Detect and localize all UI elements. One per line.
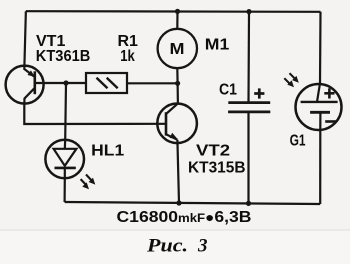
HL1 emission arrows [81,175,96,190]
wire HL1 anode branch [64,83,67,140]
node top rail / M1 [175,9,180,14]
wire top rail [26,10,321,13]
wire G1 bottom lead [319,130,321,204]
wire M1 top lead [176,11,178,29]
svg-text:G1: G1 [290,133,306,150]
svg-text:HL1: HL1 [91,143,124,160]
wire C1 top lead [247,12,250,103]
node R1 / M1 / VT2 collector [175,81,180,86]
wire M1 bottom lead [176,68,179,83]
LED HL1 [45,140,84,179]
wire VT2 collector lead [177,83,179,103]
svg-text:1k: 1k [120,48,135,65]
wire VT1 emitter lead [24,11,25,66]
svg-text:C1: C1 [219,82,237,99]
transistor VT2 [157,103,197,143]
C1 plus sign [254,88,264,98]
node bottom rail / VT2 emitter [176,200,181,205]
svg-text:KT361B: KT361B [36,48,91,65]
wire R1 to junction [127,82,178,84]
faint figure bottom edge [0,229,350,231]
G1 light arrows [284,73,299,87]
motor M1 [158,29,197,68]
wire VT1 collector to VT2 base [24,104,166,125]
wire G1 top lead [319,12,322,85]
transistor VT1 [6,66,44,104]
svg-text:C16800mkF●6,3B: C16800mkF●6,3B [117,209,252,226]
wire VT2 emitter lead [177,140,179,203]
resistor R1 [86,73,127,93]
wire HL1 cathode to bottom rail [63,178,65,202]
G1 minus sign [325,120,336,123]
wire VT1 base to R1 [35,82,86,84]
VT2 emitter arrow (NPN) [170,133,177,139]
node top rail / C1 [246,9,251,14]
capacitor C1 [228,103,270,112]
battery G1 [296,84,342,130]
node bottom rail / C1 [246,201,251,206]
svg-text:3: 3 [197,236,208,257]
G1 plus sign [324,88,334,98]
node VT1 base / HL1 [63,80,68,85]
wire bottom rail [65,202,321,204]
svg-text:M1: M1 [205,37,230,54]
svg-text:KT315B: KT315B [188,160,246,177]
VT1 emitter arrow (PNP) [28,70,35,77]
wire C1 bottom lead [247,112,249,203]
svg-text:VT2: VT2 [196,143,230,160]
svg-text:M: M [170,41,185,58]
svg-text:Рис.: Рис. [146,236,188,257]
